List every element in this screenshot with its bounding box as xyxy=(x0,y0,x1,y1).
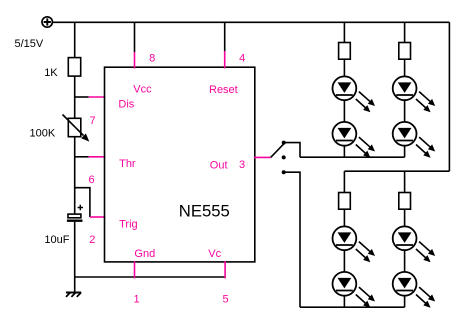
wire ground rail to pins 1 and 5 xyxy=(75,276,225,278)
pin 7 stub Dis xyxy=(89,96,106,98)
svg-text:NE555: NE555 xyxy=(179,202,230,221)
wire top supply rail xyxy=(53,21,449,23)
LED D3 xyxy=(393,76,436,112)
wire Thr branch xyxy=(75,156,89,158)
wire R3 to LED D1 xyxy=(343,59,345,76)
svg-text:Trig: Trig xyxy=(119,219,138,231)
wire pot to capacitor xyxy=(74,137,76,214)
switch contact middle xyxy=(282,155,286,159)
svg-text:Thr: Thr xyxy=(119,158,136,170)
wire switch bottom contact down xyxy=(284,172,300,307)
resistor R4 xyxy=(399,43,411,60)
capacitor C1 10uF xyxy=(67,205,83,221)
svg-text:1K: 1K xyxy=(44,67,58,79)
switch S1 lever xyxy=(271,143,285,157)
power terminal +V xyxy=(42,17,52,27)
wire Dis branch xyxy=(75,96,89,98)
wire R4 to LED D3 xyxy=(404,59,406,76)
wire switch top contact to bank A rail xyxy=(284,143,300,158)
wire LED D6 to bank B bottom rail xyxy=(343,296,345,308)
wire from rail down to R1 xyxy=(74,22,76,57)
LED D7 xyxy=(393,226,436,262)
wire rail to pin 8 xyxy=(134,22,136,52)
svg-text:Out: Out xyxy=(210,160,228,172)
svg-text:6: 6 xyxy=(88,174,94,186)
svg-text:1: 1 xyxy=(133,294,139,306)
switch contact top xyxy=(282,141,286,145)
LED D6 xyxy=(333,272,376,308)
pin 5 stub Vc xyxy=(224,261,226,278)
wire rail to R4 xyxy=(404,22,406,42)
svg-text:Vc: Vc xyxy=(208,248,221,260)
wire Trig jog xyxy=(75,188,90,217)
wire right vertical supply xyxy=(448,22,450,171)
wire LED D4 to bank A rail xyxy=(404,146,406,158)
LED D1 xyxy=(333,76,376,112)
svg-text:7: 7 xyxy=(89,115,95,127)
pin 6 stub Thr xyxy=(89,156,106,158)
resistor R5 xyxy=(339,193,351,210)
svg-text:3: 3 xyxy=(239,159,245,171)
wire LED D1 to LED D2 xyxy=(343,100,345,122)
wire LED D7 to LED D8 xyxy=(404,250,406,272)
pin 2 stub Trig xyxy=(90,216,106,218)
wire R5 to LED D5 xyxy=(343,209,345,226)
resistor R3 xyxy=(339,43,351,60)
svg-text:100K: 100K xyxy=(30,128,56,140)
wire capacitor to ground xyxy=(74,222,76,293)
wire LED D2 to bank A rail xyxy=(343,146,345,158)
svg-text:Reset: Reset xyxy=(209,84,238,96)
svg-text:8: 8 xyxy=(149,53,155,65)
LED D8 xyxy=(393,272,436,308)
LED D2 xyxy=(333,122,376,158)
wire LED D8 to bank B bottom rail xyxy=(404,296,406,308)
wire bank B rail to R6 xyxy=(404,171,406,192)
pin 1 stub Gnd xyxy=(134,261,136,278)
wire LED D3 to LED D4 xyxy=(404,100,406,122)
svg-text:4: 4 xyxy=(239,53,245,65)
svg-text:10uF: 10uF xyxy=(44,234,69,246)
LED D5 xyxy=(333,226,376,262)
wire bank B rail to R5 xyxy=(343,171,345,192)
IC U1 NE555 body xyxy=(105,67,255,262)
svg-text:Gnd: Gnd xyxy=(134,248,155,260)
wire rail to R3 xyxy=(343,22,345,42)
pin 4 stub Reset xyxy=(224,51,226,69)
svg-text:Vcc: Vcc xyxy=(133,83,152,95)
svg-text:5/15V: 5/15V xyxy=(15,38,44,50)
wire bank B bottom rail xyxy=(300,306,405,308)
wire rail to pin 4 xyxy=(224,22,226,51)
resistor R1 1K xyxy=(68,58,80,77)
potentiometer R2 100K xyxy=(63,115,90,142)
wire bank A bottom rail xyxy=(300,156,405,158)
resistor R6 xyxy=(399,193,411,210)
svg-text:5: 5 xyxy=(223,294,229,306)
pin 3 stub Out xyxy=(254,156,271,158)
wire R1 to pot xyxy=(74,76,76,118)
wire bank B top rail xyxy=(344,170,449,172)
svg-text:Dis: Dis xyxy=(118,99,134,111)
LED D4 xyxy=(393,122,436,158)
switch contact bottom xyxy=(282,170,286,174)
pin 8 stub Vcc xyxy=(134,52,136,69)
wire R6 to LED D7 xyxy=(404,209,406,226)
ground xyxy=(66,293,81,297)
wire LED D5 to LED D6 xyxy=(343,250,345,272)
svg-text:2: 2 xyxy=(89,234,95,246)
